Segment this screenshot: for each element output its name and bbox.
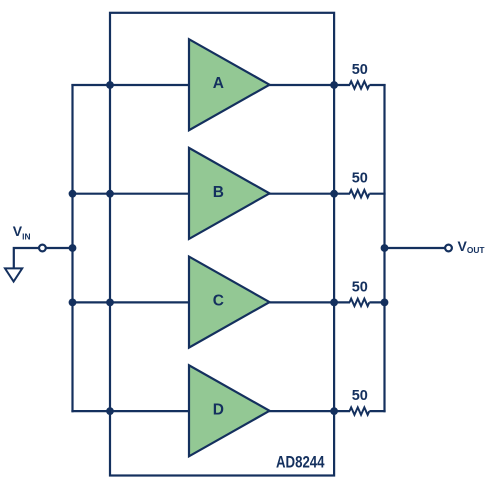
wire: buffer B output <box>269 193 351 195</box>
junction: VIN node at bus <box>69 244 77 252</box>
wire: buffer A output <box>269 84 351 86</box>
terminal: VIN input <box>39 245 46 252</box>
resistor R1 50 ohm <box>350 81 370 88</box>
wire: VIN terminal to input bus <box>46 247 74 249</box>
svg-text:AD8244: AD8244 <box>276 454 325 472</box>
svg-text:50: 50 <box>352 388 368 404</box>
buffer amplifier A <box>189 39 270 130</box>
wire: ground stub to VIN terminal <box>14 248 39 268</box>
resistor R3 50 ohm <box>350 299 370 306</box>
svg-text:D: D <box>213 401 224 418</box>
junction: node C input at box edge <box>106 299 114 307</box>
svg-text:50: 50 <box>352 279 368 295</box>
junction: node C output at box edge <box>330 299 338 307</box>
junction: node D input at box edge <box>106 407 114 415</box>
junction: node A output at box edge <box>330 81 338 89</box>
wire: output bus to VOUT terminal <box>383 247 445 249</box>
wire: input to buffer C <box>71 301 190 303</box>
wire: left input bus <box>71 84 73 412</box>
terminal: VOUT output <box>445 245 452 252</box>
buffer amplifier D <box>189 365 270 456</box>
junction: node C input at bus <box>69 299 77 307</box>
wire: R2 to output bus <box>369 193 385 195</box>
wire: R4 to output bus <box>369 410 385 412</box>
svg-text:50: 50 <box>352 171 368 187</box>
ground <box>5 268 22 281</box>
junction: VOUT node at bus <box>381 244 389 252</box>
wire: input to buffer B <box>71 193 190 195</box>
svg-text:B: B <box>213 184 224 201</box>
wire: buffer C output <box>269 301 351 303</box>
svg-text:C: C <box>213 293 224 310</box>
IC boundary box U1 AD8244 <box>110 13 334 476</box>
wire: input to buffer A <box>71 84 190 86</box>
junction: node B input at bus <box>69 190 77 198</box>
buffer amplifier B <box>189 148 270 239</box>
svg-text:50: 50 <box>352 62 368 78</box>
junction: node B output at box edge <box>330 190 338 198</box>
resistor R4 50 ohm <box>350 407 370 414</box>
junction: node C output at bus <box>381 299 389 307</box>
wire: input to buffer D <box>71 410 190 412</box>
junction: node D output at box edge <box>330 407 338 415</box>
wire: R3 to output bus <box>369 301 385 303</box>
svg-text:A: A <box>213 75 224 92</box>
wire: buffer D output <box>269 410 351 412</box>
wire: R1 to output bus <box>369 84 385 86</box>
junction: node B input at box edge <box>106 190 114 198</box>
junction: node A input at box edge <box>106 81 114 89</box>
resistor R2 50 ohm <box>350 190 370 197</box>
buffer amplifier C <box>189 257 270 348</box>
wire: right output bus <box>383 84 385 412</box>
